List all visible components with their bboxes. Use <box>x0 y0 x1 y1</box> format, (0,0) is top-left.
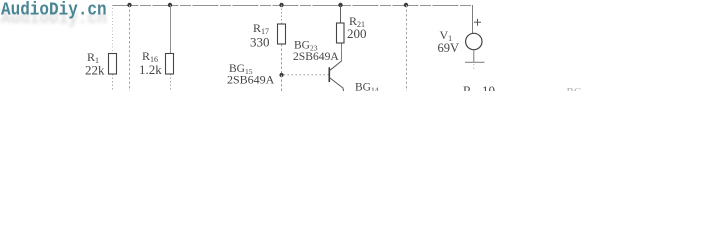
node junction at x=129 <box>127 3 131 7</box>
voltage source V1 <box>466 33 482 49</box>
wire below V1 <box>473 50 475 62</box>
wire base dotted from node to bar <box>284 74 329 76</box>
wire below R1 <box>112 74 114 91</box>
wire collector diagonal <box>329 61 341 71</box>
svg-text:BG: BG <box>567 86 582 91</box>
node junction at x=281.5 <box>279 3 283 7</box>
wire branch down to R21 <box>340 5 342 23</box>
resistor R1 <box>109 54 117 75</box>
resistor R17 <box>278 24 286 44</box>
node junction at x=406 <box>404 3 408 7</box>
wire right branch down to V1 <box>472 5 474 34</box>
node junction at x=170 <box>168 3 172 7</box>
wire top supply bus <box>113 5 473 7</box>
wire left branch down to R1 <box>112 5 114 54</box>
wire below R17 to base node <box>281 44 283 75</box>
svg-text:BG14: BG14 <box>355 82 379 92</box>
resistor R16 <box>166 54 174 75</box>
svg-text:R: R <box>463 84 472 91</box>
resistor R21 <box>337 23 345 43</box>
wire branch x=406 full height <box>406 5 408 91</box>
wire emitter diagonal <box>329 78 343 92</box>
svg-text:10: 10 <box>482 83 495 91</box>
wire branch down to R16 <box>170 5 172 54</box>
wire faint below bar <box>473 64 475 70</box>
transistor BG23 2SB649A <box>328 67 330 82</box>
wire bottom bar of V1 branch <box>465 61 485 63</box>
node junction at x=340.5 <box>338 3 342 7</box>
svg-text:330: 330 <box>250 35 270 50</box>
svg-text:200: 200 <box>347 26 367 41</box>
plus sign <box>474 21 481 23</box>
svg-text:22k: 22k <box>85 63 105 78</box>
watermark AudioDiy.cn <box>1 1 107 20</box>
svg-text:69V: 69V <box>438 41 460 55</box>
svg-text:R17: R17 <box>253 21 269 36</box>
wire branch down to R17 <box>281 5 283 24</box>
node base junction at (281.5,75) <box>279 73 283 77</box>
svg-text:1.2k: 1.2k <box>139 62 162 77</box>
wire branch x=129 full height <box>129 5 131 91</box>
svg-text:2SB649A: 2SB649A <box>227 73 275 87</box>
wire below R21 to collector <box>341 43 343 61</box>
svg-text:2SB649A: 2SB649A <box>293 50 339 63</box>
wire below R16 <box>170 74 172 91</box>
wire below base node <box>281 75 283 91</box>
